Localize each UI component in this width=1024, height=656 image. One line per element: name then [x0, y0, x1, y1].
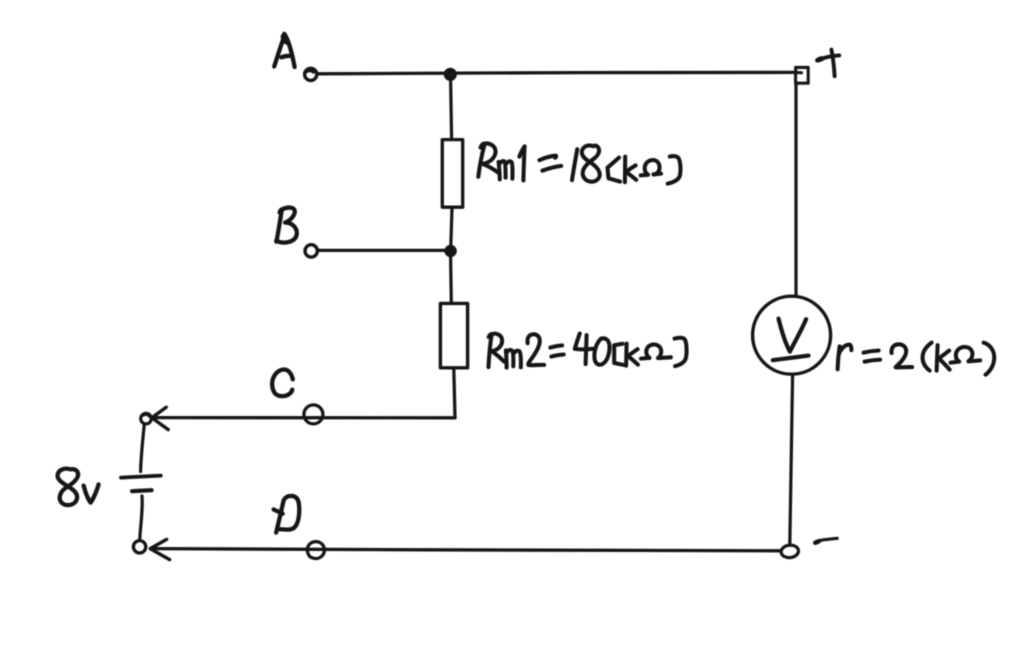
- square terminal at +: [796, 67, 809, 83]
- resistor Rm2: [440, 303, 467, 367]
- voltmeter top wire: [794, 84, 797, 297]
- junction dot at B/Rm2: [445, 246, 455, 256]
- battery top terminal blob: [141, 413, 152, 424]
- wire D (bottom horizontal): [152, 549, 781, 551]
- circle on wire D: [307, 542, 324, 559]
- label r = 2 (kOhm): [838, 343, 995, 375]
- resistor Rm1: [442, 140, 462, 208]
- arrowhead at D end: [150, 539, 169, 559]
- voltmeter bottom wire: [790, 375, 793, 545]
- battery short plate: [132, 490, 152, 491]
- junction dot at A/Rm1: [445, 69, 456, 80]
- node B label: [276, 208, 297, 243]
- wire B (horizontal): [318, 249, 445, 252]
- terminal circle at A: [305, 68, 317, 80]
- node A label: [274, 34, 294, 67]
- wire junction A to Rm1: [451, 79, 452, 139]
- plus label: [817, 50, 839, 77]
- node C label: [272, 370, 293, 397]
- wire A (top horizontal): [317, 72, 796, 73]
- voltmeter V symbol: [773, 319, 809, 361]
- minus label: [815, 538, 837, 543]
- label Rm2 = 40 [kOhm]: [489, 334, 687, 368]
- battery long plate: [121, 476, 161, 478]
- wire Rm1 to junction B: [451, 208, 452, 246]
- wire battery bottom: [140, 496, 143, 540]
- arrowhead at C end: [152, 407, 168, 429]
- node D label: [274, 496, 300, 533]
- wire junction B to Rm2: [449, 257, 453, 304]
- label Rm1 = 18 [kOhm]: [478, 143, 680, 183]
- circle on wire C: [304, 405, 323, 424]
- wire C (horizontal): [153, 416, 455, 419]
- ellipse terminal at D right: [780, 544, 799, 558]
- wire Rm2 to corner C: [454, 369, 455, 418]
- voltmeter U1 circle: [753, 296, 831, 374]
- terminal circle at B: [305, 245, 317, 257]
- battery bottom terminal circle: [133, 541, 145, 553]
- label 8v: [58, 469, 99, 505]
- wire battery top: [141, 424, 145, 472]
